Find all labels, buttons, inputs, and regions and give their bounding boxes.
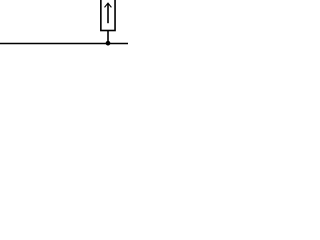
current source arrow head bbox=[105, 3, 112, 7]
current source arrow shaft bbox=[107, 4, 109, 24]
current source body (rectangle, cut off at top edge) bbox=[101, 0, 115, 31]
wire (horizontal net) bbox=[0, 43, 128, 45]
node (junction dot) bbox=[106, 41, 111, 46]
wire (lead from source bottom to net) bbox=[107, 31, 109, 44]
